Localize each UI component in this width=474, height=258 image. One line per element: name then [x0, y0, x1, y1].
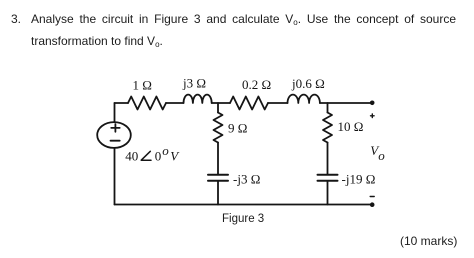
svg-text:9 Ω: 9 Ω	[228, 120, 247, 135]
wire: capacitor -j3 to bottom rail	[217, 181, 219, 205]
wire: resistor 0.2 to inductor j0.6	[268, 102, 288, 104]
inductor j0.6 ohm	[288, 95, 320, 103]
marks label	[400, 234, 457, 248]
wire: capacitor -j19 to bottom rail	[327, 181, 329, 205]
wire: resistor to inductor j3	[166, 102, 184, 104]
resistor 1 ohm	[128, 97, 166, 110]
wire: bottom rail	[115, 204, 371, 206]
output plus polarity mark	[371, 114, 375, 118]
svg-text:40: 40	[125, 148, 138, 163]
svg-text:-j19 Ω: -j19 Ω	[342, 172, 376, 187]
source plus sign	[111, 124, 120, 132]
node A: junction to middle branch	[217, 103, 219, 113]
svg-text:-j3 Ω: -j3 Ω	[233, 172, 260, 187]
resistor 10 ohm	[323, 113, 332, 143]
problem statement text	[11, 9, 21, 30]
wire: left vertical down to source	[114, 103, 116, 122]
inductor j3 ohm	[184, 95, 212, 103]
figure caption	[222, 213, 264, 225]
capacitor -j3 ohm	[208, 175, 228, 181]
wire: source bottom to bottom rail	[114, 148, 116, 205]
wire: top-left corner to resistor R=1ohm	[115, 102, 129, 104]
terminal node (bottom right dot)	[370, 202, 375, 207]
resistor 0.2 ohm	[230, 97, 268, 110]
output minus polarity mark	[370, 196, 374, 198]
wire: resistor 10 to capacitor -j19	[327, 143, 329, 175]
output voltage Vo label	[370, 143, 385, 163]
capacitor -j19 ohm	[318, 175, 338, 181]
wire: inductor j0.6 to output terminal	[320, 102, 371, 104]
wire: inductor j3 to node A	[212, 102, 230, 104]
svg-text:0.2 Ω: 0.2 Ω	[242, 77, 271, 92]
wire: resistor 9 to capacitor -j3	[217, 143, 219, 175]
svg-text:o: o	[378, 148, 385, 163]
svg-text:1 Ω: 1 Ω	[133, 77, 152, 92]
angle symbol	[141, 151, 151, 160]
node B: junction to right branch	[327, 103, 329, 113]
svg-text:o: o	[162, 143, 169, 158]
terminal node (top right dot)	[370, 101, 375, 106]
resistor 9 ohm	[214, 113, 223, 143]
svg-text:10 Ω: 10 Ω	[338, 119, 364, 134]
voltage source 40 angle 0 V	[97, 122, 131, 148]
svg-text:j0.6 Ω: j0.6 Ω	[291, 76, 325, 91]
svg-text:0: 0	[155, 148, 162, 163]
svg-text:j3 Ω: j3 Ω	[182, 76, 206, 91]
svg-text:V: V	[170, 148, 180, 163]
source minus sign	[111, 140, 120, 142]
value label 40 angle 0 V	[125, 143, 180, 164]
